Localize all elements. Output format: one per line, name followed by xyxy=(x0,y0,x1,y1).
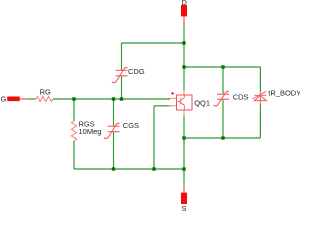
svg-text:G: G xyxy=(1,95,7,104)
svg-text:QQ1: QQ1 xyxy=(194,98,210,107)
svg-text:S: S xyxy=(182,204,187,212)
svg-text:tR_BODY: tR_BODY xyxy=(268,88,300,97)
svg-text:CDS: CDS xyxy=(233,92,249,101)
svg-text:D: D xyxy=(182,0,188,7)
svg-text:CDG: CDG xyxy=(128,67,145,76)
svg-text:RG: RG xyxy=(40,88,51,97)
svg-text:CGS: CGS xyxy=(123,121,139,130)
svg-text:10Meg: 10Meg xyxy=(79,127,102,136)
